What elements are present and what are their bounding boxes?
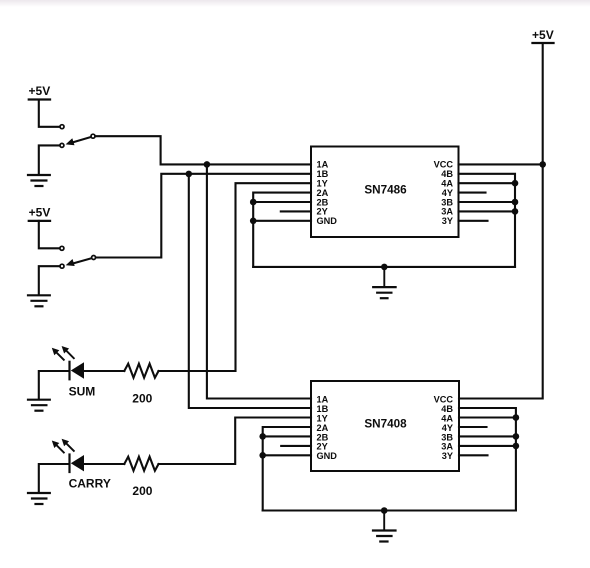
ground (U2) bbox=[373, 511, 396, 542]
junction U1 3A bbox=[512, 208, 519, 215]
svg-text:SN7486: SN7486 bbox=[364, 184, 407, 197]
wire U2 pin 2Y stub bbox=[281, 445, 311, 447]
svg-text:2A: 2A bbox=[317, 423, 329, 433]
junction U1 GND tie bbox=[250, 218, 257, 225]
label 200 (R1) bbox=[132, 392, 152, 406]
wire U2 pin 4Y stub bbox=[459, 426, 487, 428]
junction U2 3B bbox=[513, 433, 520, 440]
wire +5V to S2 top contact bbox=[39, 221, 59, 248]
+5V supply (switch S1) bbox=[29, 98, 50, 100]
svg-text:GND: GND bbox=[317, 451, 338, 461]
wire U1 GND pin to tie bbox=[253, 220, 311, 222]
wire U1 3A to right bus bbox=[459, 210, 516, 212]
svg-text:3Y: 3Y bbox=[442, 216, 453, 226]
wire S2 common to U1 pin 1B (node B) bbox=[96, 174, 311, 258]
junction U2 3A bbox=[513, 443, 520, 450]
wire U2 2A tie-down bbox=[263, 427, 311, 511]
wire U2 3B to right bus bbox=[459, 435, 516, 437]
svg-text:4A: 4A bbox=[441, 413, 453, 423]
label SUM bbox=[69, 384, 96, 398]
ground (LED SUM) bbox=[28, 400, 50, 411]
label 200 (R2) bbox=[132, 484, 152, 498]
junction U2 ground symbol bbox=[381, 507, 388, 514]
svg-text:+5V: +5V bbox=[29, 84, 51, 98]
wire node A to U2 pin 1A bbox=[207, 164, 311, 398]
+5V supply (top right) bbox=[533, 42, 554, 44]
wire U2 pin 3Y stub bbox=[459, 454, 488, 456]
IC U2 SN7408 body bbox=[311, 381, 459, 471]
svg-text:SUM: SUM bbox=[69, 384, 96, 398]
wire S1 common to U1 pin 1A (node A) bbox=[95, 136, 311, 164]
wire R2 to U2 pin 1Y (CARRY net) bbox=[159, 418, 312, 465]
svg-text:+5V: +5V bbox=[29, 205, 51, 219]
label U1 SN7486 bbox=[364, 184, 407, 197]
label U2 SN7408 bbox=[364, 418, 407, 431]
LED SUM (D1) bbox=[52, 346, 84, 379]
wire U1 2A tie-down bbox=[253, 193, 311, 267]
wire U1 pin 4Y stub bbox=[459, 192, 486, 194]
+5V supply (switch S2) bbox=[29, 220, 50, 222]
svg-text:200: 200 bbox=[132, 484, 152, 498]
label +5V (top right) bbox=[532, 28, 554, 42]
wire U2 4B to right bus bbox=[459, 408, 516, 511]
svg-text:4B: 4B bbox=[441, 404, 453, 414]
wire U1 4A to right bus bbox=[459, 182, 516, 184]
junction U1 3B bbox=[512, 199, 519, 206]
wire S1 lower contact to ground bbox=[39, 145, 60, 174]
svg-text:CARRY: CARRY bbox=[69, 476, 111, 490]
wire U2 2B to tie bbox=[263, 435, 311, 437]
wire LED SUM to resistor R1 bbox=[84, 370, 124, 372]
wire ground to LED SUM cathode bbox=[39, 371, 69, 399]
svg-text:4Y: 4Y bbox=[442, 423, 453, 433]
U2 pin labels left bbox=[317, 394, 338, 461]
junction dot U1 VCC to +5V rail bbox=[539, 161, 546, 168]
wire U1 ground bus (bottom) bbox=[253, 266, 515, 268]
svg-text:GND: GND bbox=[317, 216, 338, 226]
switch S1 (SPDT) bbox=[60, 125, 95, 148]
svg-text:3Y: 3Y bbox=[442, 451, 453, 461]
wire +5V to S1 top contact bbox=[39, 100, 59, 127]
wire U1 2B to tie bbox=[253, 201, 311, 203]
label +5V (S2) bbox=[29, 205, 51, 219]
wire LED CARRY to resistor R2 bbox=[84, 463, 124, 465]
wire ground to LED CARRY cathode bbox=[39, 464, 69, 493]
wire R1 to U1 pin 1Y (SUM net) bbox=[159, 183, 312, 371]
ground (switch S1) bbox=[28, 175, 50, 186]
wire U1 VCC to +5V rail bbox=[459, 163, 543, 165]
wire U1 4B to right bus bbox=[459, 174, 516, 267]
svg-text:SN7408: SN7408 bbox=[364, 418, 407, 431]
wire S2 lower contact to ground bbox=[39, 266, 60, 295]
junction node B bbox=[186, 171, 193, 178]
label CARRY bbox=[69, 476, 111, 490]
svg-text:200: 200 bbox=[132, 392, 152, 406]
ground (switch S2) bbox=[28, 295, 50, 306]
ground (LED CARRY) bbox=[28, 493, 50, 504]
svg-text:1Y: 1Y bbox=[317, 413, 328, 423]
wire U1 pin 2Y stub bbox=[281, 210, 311, 212]
IC U1 SN7486 body bbox=[311, 147, 459, 238]
junction U2 GND tie bbox=[259, 452, 266, 459]
svg-text:1A: 1A bbox=[317, 394, 329, 404]
wire U2 3A to right bus bbox=[459, 445, 516, 447]
junction U2 2B tie bbox=[259, 433, 266, 440]
wire +5V rail down to U2 VCC bbox=[459, 43, 543, 399]
wire U2 ground bus (bottom) bbox=[263, 509, 516, 511]
wire U2 GND pin to tie bbox=[263, 454, 311, 456]
U1 pin labels left bbox=[317, 160, 338, 226]
junction node A bbox=[204, 161, 211, 168]
U1 pin labels right bbox=[434, 160, 454, 226]
ground (U1) bbox=[373, 267, 395, 298]
switch S2 (SPDT) bbox=[60, 246, 96, 268]
junction U1 2B tie bbox=[250, 199, 257, 206]
junction U1 4A bbox=[512, 180, 519, 187]
svg-text:VCC: VCC bbox=[434, 394, 454, 404]
wire U1 3B to right bus bbox=[459, 201, 516, 203]
resistor R2 200 (CARRY) bbox=[124, 457, 158, 471]
LED CARRY (D2) bbox=[52, 439, 84, 472]
junction U1 ground symbol bbox=[381, 264, 388, 271]
resistor R1 200 (SUM) bbox=[124, 364, 158, 378]
U2 pin labels right bbox=[434, 394, 454, 461]
label +5V (S1) bbox=[29, 84, 51, 98]
svg-text:+5V: +5V bbox=[532, 28, 554, 42]
wire U1 pin 3Y stub bbox=[459, 220, 488, 222]
junction U2 4A bbox=[513, 414, 520, 421]
wire U2 4A to right bus bbox=[459, 416, 516, 418]
wire node B to U2 pin 1B bbox=[189, 174, 311, 408]
svg-text:1B: 1B bbox=[317, 404, 329, 414]
